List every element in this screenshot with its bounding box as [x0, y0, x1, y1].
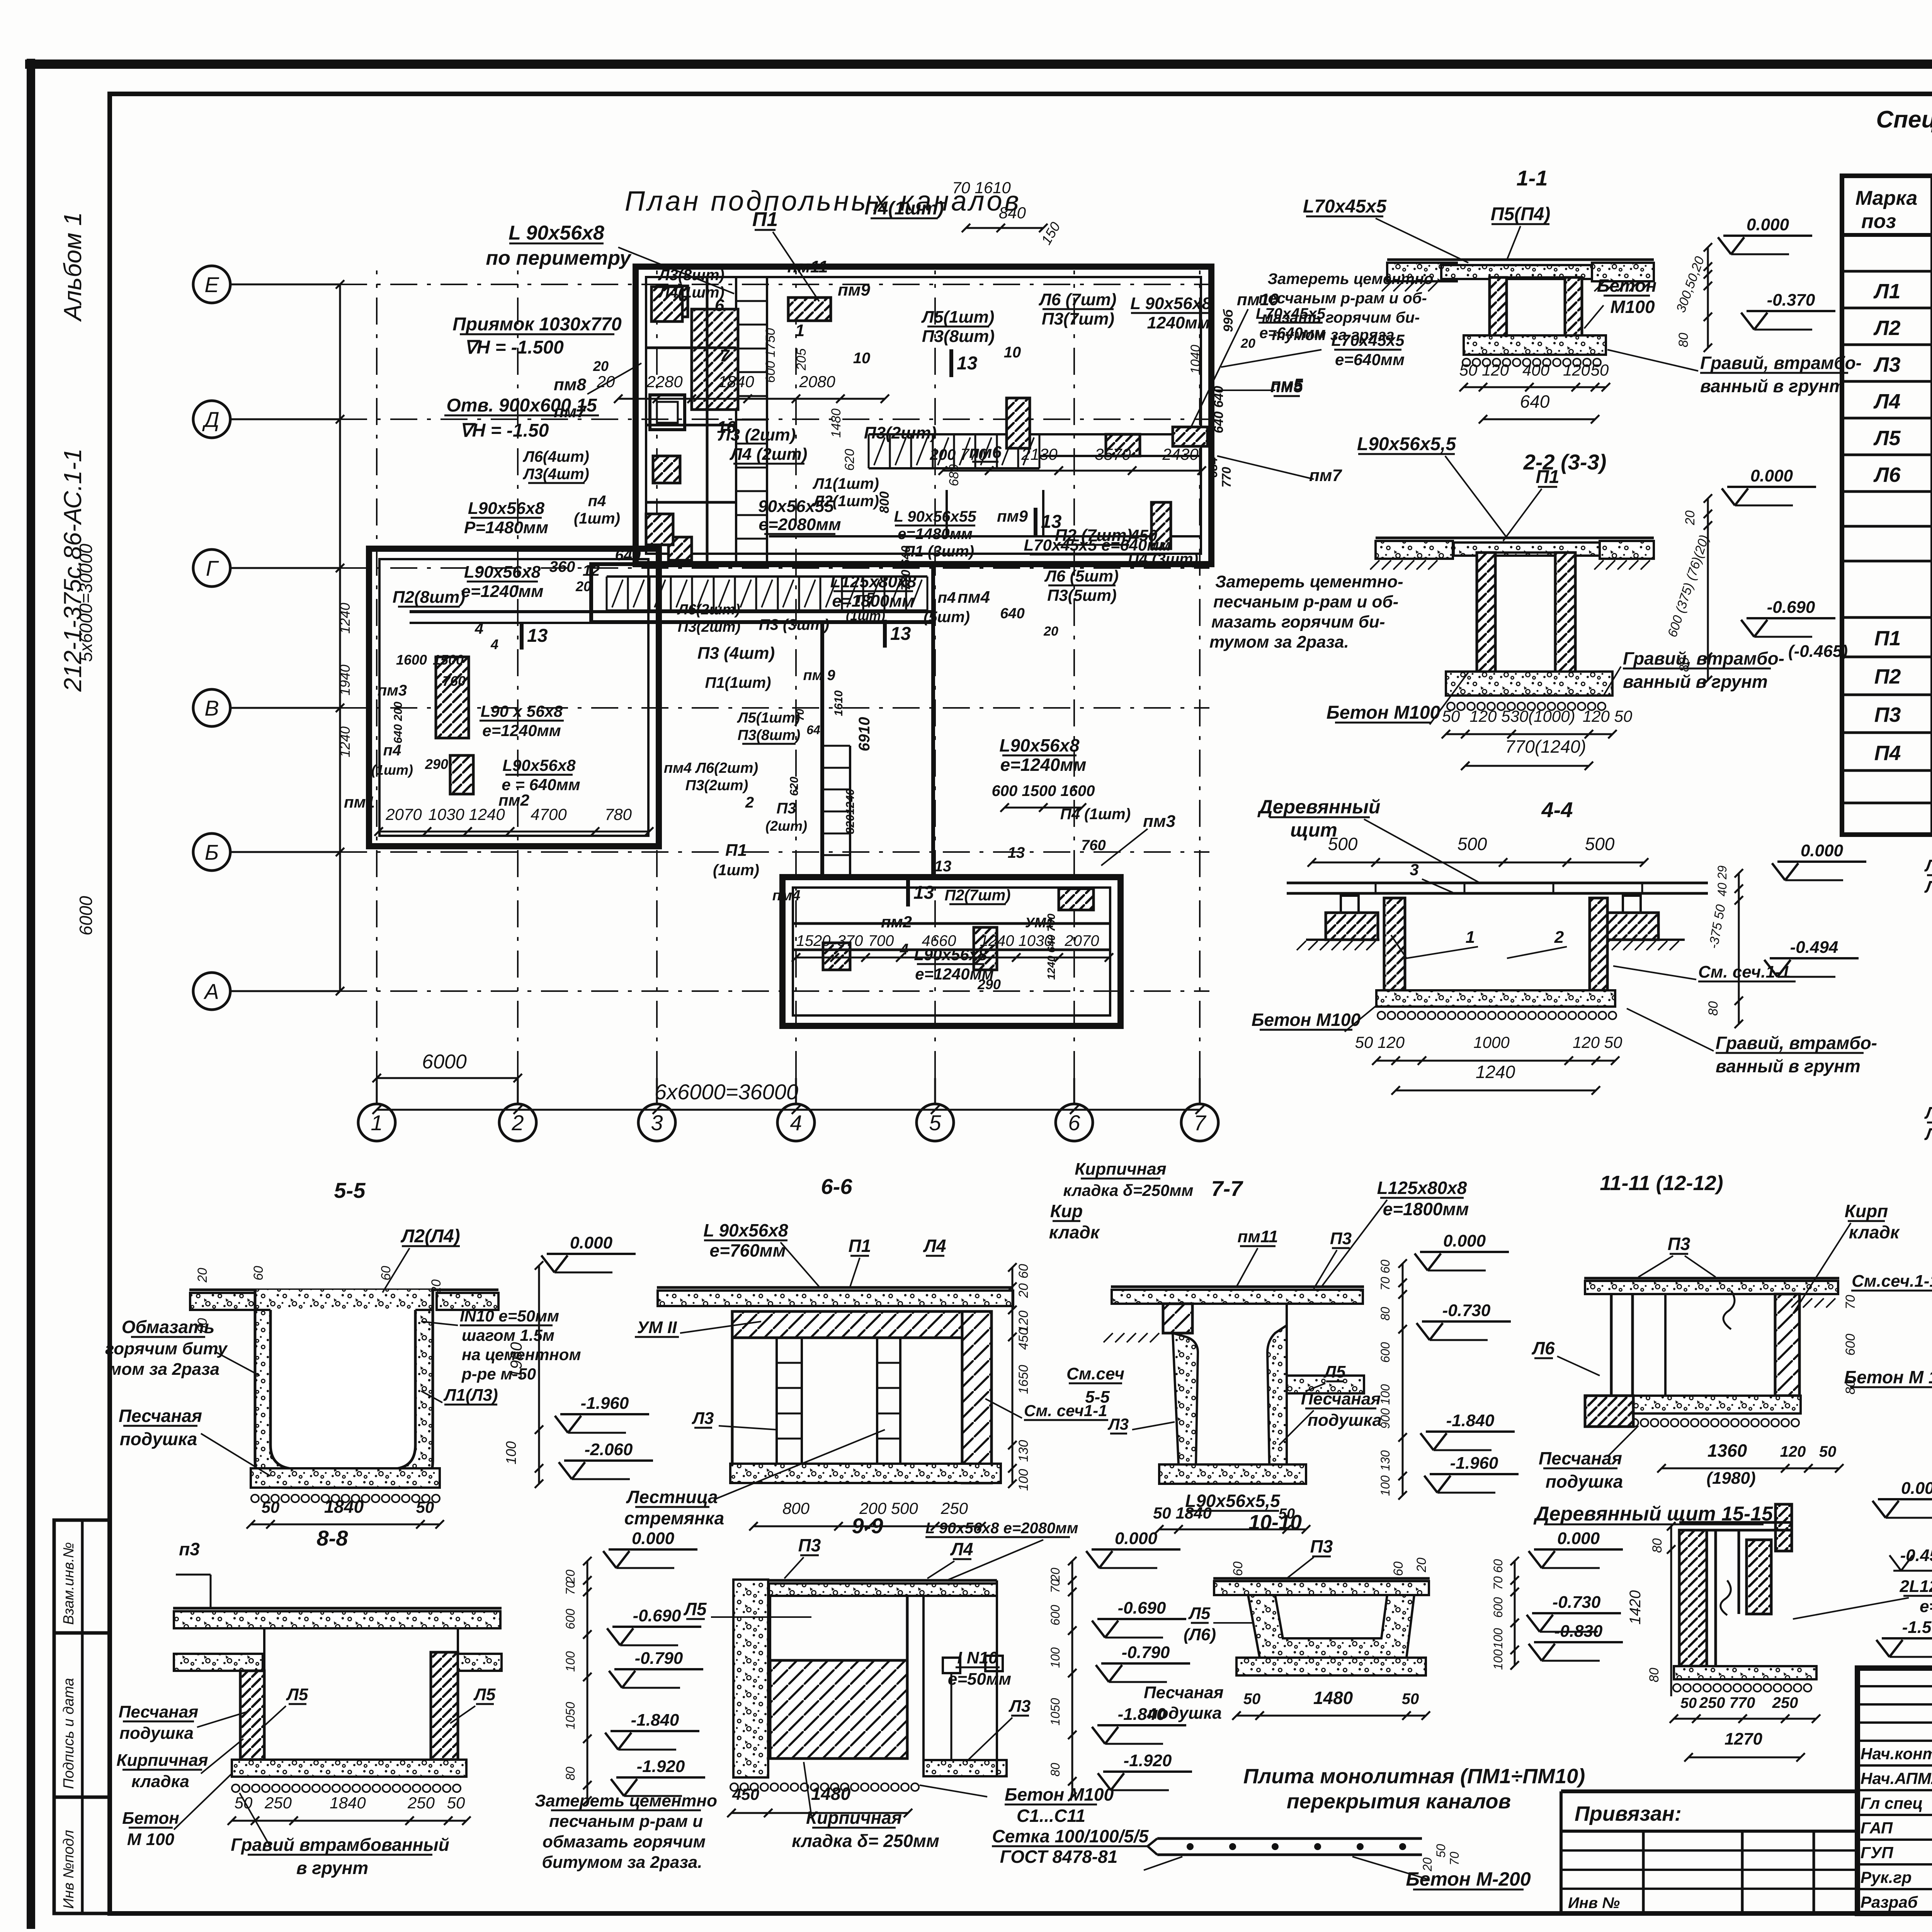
svg-text:640 200: 640 200	[392, 701, 405, 743]
svg-text:Л4: Л4	[1924, 878, 1932, 896]
svg-text:Привязан:: Привязан:	[1575, 1802, 1682, 1825]
svg-text:13: 13	[527, 626, 548, 646]
svg-text:6000: 6000	[422, 1051, 467, 1073]
svg-text:е=760мм: е=760мм	[709, 1240, 786, 1260]
svg-text:1: 1	[1466, 928, 1475, 947]
svg-text:См. сеч.1-1: См. сеч.1-1	[1698, 963, 1790, 981]
svg-text:(1шт): (1шт)	[371, 762, 413, 778]
svg-text:(2шт): (2шт)	[765, 818, 807, 834]
svg-text:70 60: 70 60	[1378, 1260, 1392, 1291]
section 11-11 drawing	[1584, 1277, 1839, 1280]
svg-text:600: 600	[1491, 1597, 1505, 1618]
svg-text:-1.920: -1.920	[637, 1757, 685, 1776]
svg-text:800: 800	[877, 492, 892, 514]
svg-text:L 90х56х55: L 90х56х55	[894, 508, 977, 525]
svg-text:П3(2шт): П3(2шт)	[864, 423, 937, 442]
svg-text:подушка: подушка	[120, 1429, 197, 1449]
svg-text:тумом за 2раза.: тумом за 2раза.	[1209, 633, 1349, 651]
section 4-4 channel	[1384, 898, 1405, 990]
svg-text:640: 640	[1520, 391, 1550, 412]
svg-text:6-6: 6-6	[821, 1174, 853, 1199]
svg-text:2070: 2070	[1065, 932, 1099, 949]
svg-text:Нач.контр: Нач.контр	[1861, 1745, 1932, 1763]
specification table grid	[1842, 176, 1932, 835]
svg-text:Бетон: Бетон	[122, 1809, 179, 1828]
svg-text:1: 1	[795, 321, 804, 340]
svg-text:Л4: Л4	[1873, 390, 1900, 413]
svg-text:-0.370: -0.370	[1767, 291, 1815, 310]
svg-text:1480: 1480	[811, 1784, 851, 1804]
svg-text:битумом за 2раза.: битумом за 2раза.	[542, 1853, 702, 1872]
svg-text:100: 100	[563, 1651, 577, 1672]
monolithic plate hatched patches	[692, 309, 738, 410]
svg-text:50: 50	[1355, 1033, 1373, 1051]
svg-text:П4(1шт): П4(1шт)	[864, 198, 944, 219]
svg-text:-0.494: -0.494	[1790, 938, 1838, 957]
svg-text:пм8: пм8	[554, 375, 586, 394]
svg-text:П3: П3	[1668, 1234, 1690, 1254]
svg-text:Песчаная: Песчаная	[1301, 1389, 1381, 1408]
svg-text:Кирпичная: Кирпичная	[806, 1808, 902, 1828]
svg-text:80: 80	[1647, 1668, 1662, 1682]
svg-text:0.000: 0.000	[1443, 1231, 1486, 1250]
svg-text:Песчаная: Песчаная	[119, 1702, 199, 1721]
svg-text:кладк: кладк	[1849, 1222, 1900, 1242]
svg-text:пм4 Л6(2шт): пм4 Л6(2шт)	[664, 760, 758, 776]
svg-text:(1980): (1980)	[1706, 1469, 1755, 1488]
svg-text:П3: П3	[776, 800, 796, 817]
svg-text:Л3 (2шт): Л3 (2шт)	[718, 425, 796, 444]
svg-text:-0.690: -0.690	[1118, 1599, 1166, 1617]
svg-text:П1 (3шт): П1 (3шт)	[904, 543, 974, 560]
svg-text:е=1480мм: е=1480мм	[898, 526, 973, 543]
svg-text:пм 9: пм 9	[803, 667, 835, 684]
svg-text:П3(2шт): П3(2шт)	[678, 619, 740, 635]
svg-text:80: 80	[1048, 1763, 1062, 1777]
svg-text:0.000: 0.000	[1557, 1529, 1600, 1548]
svg-text:Бетон М100: Бетон М100	[1252, 1010, 1361, 1030]
svg-text:Затереть цементно: Затереть цементно	[1267, 270, 1433, 287]
svg-text:250 770: 250 770	[1699, 1694, 1755, 1711]
section 7-7 levels	[1420, 1251, 1509, 1253]
svg-text:64: 64	[806, 723, 820, 737]
svg-text:кладка δ= 250мм: кладка δ= 250мм	[792, 1831, 939, 1851]
svg-text:-0.790: -0.790	[1122, 1643, 1170, 1662]
svg-text:1240: 1240	[337, 603, 353, 634]
svg-text:80: 80	[1706, 1001, 1721, 1016]
svg-text:80: 80	[1650, 1538, 1665, 1553]
svg-text:120: 120	[1378, 1033, 1405, 1051]
svg-text:щит: щит	[1290, 819, 1337, 841]
svg-text:е=1240мм: е=1240мм	[1000, 755, 1087, 775]
svg-text:L70х45х5: L70х45х5	[1303, 196, 1387, 217]
svg-text:4: 4	[474, 620, 483, 637]
svg-text:770 640: 770 640	[899, 546, 913, 590]
svg-text:6910: 6910	[856, 717, 873, 752]
svg-text:L 90х56х8 е=2080мм: L 90х56х8 е=2080мм	[925, 1520, 1078, 1537]
svg-text:13: 13	[890, 624, 911, 644]
svg-text:пм9: пм9	[997, 507, 1028, 525]
svg-text:290: 290	[425, 756, 448, 772]
svg-text:640 640: 640 640	[1211, 386, 1226, 433]
svg-text:(Л6): (Л6)	[1184, 1625, 1216, 1644]
svg-text:Л3(4шт): Л3(4шт)	[522, 466, 589, 483]
svg-text:1500: 1500	[433, 652, 464, 668]
svg-text:80: 80	[563, 1767, 577, 1781]
svg-text:4700: 4700	[531, 805, 567, 823]
svg-text:М 100: М 100	[127, 1830, 175, 1849]
title block frame	[1857, 1668, 1932, 1913]
svg-text:П3: П3	[1310, 1536, 1333, 1556]
svg-text:11-11 (12-12): 11-11 (12-12)	[1600, 1172, 1723, 1195]
svg-text:70: 70	[1843, 1295, 1858, 1310]
svg-text:Б: Б	[205, 840, 219, 864]
svg-text:мом за 2раза: мом за 2раза	[109, 1360, 219, 1379]
svg-text:250: 250	[1772, 1694, 1798, 1711]
svg-text:50: 50	[1402, 1690, 1419, 1708]
building outline left-lower block	[369, 549, 659, 846]
svg-text:горячим биту: горячим биту	[105, 1339, 228, 1358]
svg-text:Л3: Л3	[692, 1409, 714, 1428]
svg-text:840: 840	[999, 204, 1026, 222]
svg-text:обмазать горячим: обмазать горячим	[543, 1832, 706, 1851]
svg-text:П1: П1	[725, 841, 747, 860]
bottom-left stamp boxes	[54, 1520, 110, 1913]
svg-text:П3(5шт): П3(5шт)	[1047, 586, 1117, 604]
svg-text:Песчаная: Песчаная	[1539, 1448, 1622, 1468]
svg-text:L70х45х5 е=640мм: L70х45х5 е=640мм	[1024, 536, 1171, 554]
svg-text:684: 684	[1206, 457, 1220, 478]
svg-text:9-9: 9-9	[852, 1514, 883, 1538]
svg-text:пм1: пм1	[344, 793, 375, 811]
svg-text:6: 6	[715, 296, 724, 315]
channel ladder upper	[869, 433, 1039, 435]
svg-text:Л3: Л3	[1009, 1697, 1031, 1716]
svg-text:Гравий, втрамбо-: Гравий, втрамбо-	[1716, 1033, 1877, 1053]
svg-text:-1.960: -1.960	[1450, 1454, 1498, 1473]
svg-text:П3: П3	[1330, 1229, 1352, 1248]
svg-text:е=2080мм: е=2080мм	[759, 515, 841, 534]
svg-text:600: 600	[1048, 1605, 1062, 1626]
svg-text:пм7: пм7	[1309, 466, 1342, 485]
svg-text:Гравий, втрамбо-: Гравий, втрамбо-	[1623, 648, 1784, 668]
svg-text:Песчаная: Песчаная	[1144, 1683, 1224, 1702]
svg-text:80: 80	[1378, 1307, 1392, 1321]
svg-text:10: 10	[853, 350, 871, 367]
svg-text:кладка: кладка	[131, 1772, 189, 1791]
svg-text:Л3(8шт): Л3(8шт)	[658, 267, 724, 284]
svg-text:Л4 (2шт): Л4 (2шт)	[730, 445, 808, 464]
svg-text:П1: П1	[849, 1236, 871, 1256]
svg-text:250: 250	[264, 1794, 292, 1812]
svg-text:Взам.инв.№: Взам.инв.№	[61, 1542, 77, 1625]
building corridor vertical	[822, 622, 933, 877]
svg-text:90х56х55: 90х56х55	[758, 497, 834, 516]
outer paper border	[27, 59, 35, 1929]
svg-text:99б: 99б	[1221, 309, 1236, 332]
svg-text:L90 х 56х8: L90 х 56х8	[481, 702, 563, 720]
svg-text:L90х56х5,5: L90х56х5,5	[1357, 434, 1457, 454]
svg-text:100: 100	[1378, 1475, 1392, 1496]
svg-text:20: 20	[195, 1268, 210, 1283]
svg-text:L90х56х8: L90х56х8	[914, 946, 987, 964]
svg-text:120 50: 120 50	[1583, 707, 1633, 725]
svg-text:Нач.АПМ2: Нач.АПМ2	[1861, 1769, 1932, 1787]
svg-text:Гравий втрамбованный: Гравий втрамбованный	[231, 1835, 449, 1855]
svg-text:2280: 2280	[646, 372, 683, 391]
svg-text:Гравий, втрамбо-: Гравий, втрамбо-	[1700, 353, 1862, 373]
svg-text:13: 13	[934, 858, 952, 875]
svg-text:-0.690: -0.690	[633, 1606, 681, 1625]
svg-text:20: 20	[593, 358, 609, 374]
svg-text:600: 600	[1843, 1334, 1858, 1356]
svg-text:по периметру: по периметру	[486, 247, 632, 269]
svg-text:1480: 1480	[1313, 1688, 1353, 1708]
svg-text:1840: 1840	[330, 1794, 366, 1812]
svg-text:7-7: 7-7	[1211, 1176, 1244, 1201]
svg-text:Инв №: Инв №	[1568, 1895, 1620, 1912]
svg-text:Л1: Л1	[1873, 280, 1900, 303]
svg-text:1840: 1840	[718, 372, 754, 391]
svg-text:П3(7шт): П3(7шт)	[1042, 310, 1114, 328]
svg-text:Л1(Л3): Л1(Л3)	[443, 1386, 498, 1405]
svg-text:60: 60	[1231, 1561, 1245, 1576]
svg-text:песчаным р-рам и об-: песчаным р-рам и об-	[1213, 592, 1398, 611]
svg-text:10: 10	[1004, 344, 1021, 361]
svg-text:13: 13	[1008, 844, 1025, 861]
svg-text:пм2: пм2	[498, 791, 529, 809]
svg-text:(5шт): (5шт)	[923, 609, 970, 626]
svg-text:(1шт): (1шт)	[574, 510, 620, 527]
svg-text:0.000: 0.000	[1901, 1479, 1932, 1498]
svg-text:ГАП: ГАП	[1861, 1819, 1893, 1837]
svg-text:360: 360	[549, 558, 575, 575]
svg-text:Л6(4шт): Л6(4шт)	[522, 448, 589, 465]
svg-text:(-0.465): (-0.465)	[1788, 642, 1848, 661]
svg-text:0.000: 0.000	[1750, 466, 1793, 485]
svg-text:мазать горячим би-: мазать горячим би-	[1211, 612, 1385, 631]
svg-text:50: 50	[1459, 361, 1478, 379]
svg-text:450: 450	[1016, 1328, 1031, 1350]
svg-text:П3(2шт): П3(2шт)	[685, 777, 748, 794]
channel ladder middle horizontal	[607, 575, 927, 578]
svg-text:Кирпичная: Кирпичная	[1075, 1160, 1166, 1179]
svg-text:600 1500 1600: 600 1500 1600	[992, 782, 1095, 799]
svg-text:пм9: пм9	[838, 281, 870, 299]
svg-text:20: 20	[1683, 510, 1697, 526]
svg-text:песчаным р-рам и об-: песчаным р-рам и об-	[1259, 290, 1427, 307]
svg-text:Бетон М100: Бетон М100	[1005, 1784, 1114, 1804]
svg-text:пм7: пм7	[554, 402, 587, 421]
svg-text:50: 50	[447, 1794, 465, 1812]
svg-text:500: 500	[1458, 834, 1487, 854]
svg-text:ванный в грунт: ванный в грунт	[1700, 376, 1845, 396]
svg-text:Сетка 100/100/5/5: Сетка 100/100/5/5	[992, 1826, 1149, 1846]
priyamok square detail	[650, 395, 685, 430]
svg-text:перекрытия каналов: перекрытия каналов	[1287, 1790, 1511, 1813]
svg-text:130: 130	[1016, 1440, 1031, 1462]
building corridor horizontal	[591, 564, 933, 622]
R3 internal channel band	[793, 922, 1109, 925]
svg-text:0.000: 0.000	[1747, 215, 1789, 234]
svg-text:50: 50	[1591, 361, 1609, 379]
svg-text:ванный в грунт: ванный в грунт	[1716, 1056, 1861, 1076]
svg-text:Затереть цементно-: Затереть цементно-	[1215, 572, 1403, 591]
svg-text:120: 120	[1563, 361, 1590, 379]
svg-text:п4: п4	[938, 589, 956, 606]
section 9-9 levels (right col)	[1092, 1548, 1180, 1551]
svg-text:песчаным р-рам и: песчаным р-рам и	[549, 1812, 703, 1831]
svg-text:770(1240): 770(1240)	[1505, 736, 1586, 757]
svg-text:L70х45х5: L70х45х5	[1256, 305, 1326, 322]
svg-text:Обмазать: Обмазать	[122, 1317, 215, 1337]
svg-text:4: 4	[900, 941, 908, 958]
svg-text:1: 1	[371, 1111, 383, 1135]
svg-text:1240: 1240	[1476, 1062, 1515, 1082]
svg-text:Приямок 1030х770: Приямок 1030х770	[452, 314, 622, 335]
svg-text:8201240: 8201240	[844, 789, 857, 834]
svg-text:Подпись и дата: Подпись и дата	[61, 1678, 77, 1789]
svg-text:50: 50	[1680, 1695, 1697, 1711]
svg-text:50: 50	[1434, 1844, 1448, 1858]
svg-text:п4: п4	[383, 742, 401, 759]
svg-text:А: А	[203, 979, 219, 1003]
svg-text:2: 2	[745, 794, 754, 811]
svg-text:Е: Е	[204, 272, 219, 297]
svg-text:П3 (4шт): П3 (4шт)	[697, 644, 775, 663]
svg-text:70: 70	[563, 1581, 577, 1595]
section 10-10 levels	[1534, 1548, 1623, 1551]
svg-text:Лестница: Лестница	[626, 1487, 718, 1507]
svg-text:Деревянный: Деревянный	[1257, 796, 1381, 818]
svg-text:Гл спец: Гл спец	[1861, 1794, 1923, 1812]
svg-text:Р=1480мм: Р=1480мм	[464, 518, 548, 537]
svg-text:1-1: 1-1	[1517, 166, 1548, 190]
svg-text:L 90х56х8: L 90х56х8	[509, 222, 604, 244]
svg-text:L90х56х8: L90х56х8	[468, 499, 545, 518]
svg-text:П2: П2	[1874, 665, 1901, 688]
svg-text:Бетон: Бетон	[1597, 276, 1656, 296]
svg-text:60: 60	[1391, 1561, 1406, 1576]
svg-text:е=50мм: е=50мм	[948, 1670, 1011, 1689]
svg-text:п3: п3	[179, 1539, 200, 1559]
svg-text:е=1800мм: е=1800мм	[1383, 1199, 1469, 1219]
svg-text:800: 800	[782, 1499, 810, 1517]
section 9-9 drawing	[733, 1580, 768, 1777]
svg-text:L 90х56х8: L 90х56х8	[1130, 294, 1211, 313]
svg-text:Кирпичная: Кирпичная	[116, 1751, 208, 1770]
svg-text:4: 4	[490, 636, 498, 652]
svg-text:2: 2	[511, 1111, 524, 1135]
svg-text:L90х56х5,5: L90х56х5,5	[1185, 1491, 1281, 1511]
svg-text:-1.920: -1.920	[1124, 1751, 1172, 1770]
plan axis grid horizontal	[193, 266, 230, 303]
svg-text:205: 205	[794, 349, 809, 371]
svg-text:13: 13	[913, 883, 934, 903]
svg-text:1650: 1650	[1016, 1365, 1031, 1394]
plan bottom dimension lines	[377, 1077, 518, 1079]
svg-text:М100: М100	[1610, 297, 1655, 317]
svg-text:70: 70	[1048, 1579, 1062, 1593]
svg-text:Л3: Л3	[1107, 1415, 1129, 1433]
svg-text:пм11: пм11	[787, 257, 828, 276]
svg-text:120 530(1000): 120 530(1000)	[1469, 707, 1575, 725]
svg-text:680: 680	[947, 464, 961, 486]
svg-text:Рук.гр: Рук.гр	[1861, 1868, 1912, 1886]
svg-text:7: 7	[720, 346, 730, 365]
svg-text:поз: поз	[1861, 210, 1896, 233]
svg-text:∇Н = -1.50: ∇Н = -1.50	[460, 420, 549, 441]
svg-text:620: 620	[842, 449, 857, 471]
svg-text:Л5(1шт): Л5(1шт)	[921, 308, 995, 327]
svg-text:760: 760	[1081, 837, 1105, 854]
svg-text:ГОСТ 8478-81: ГОСТ 8478-81	[1000, 1847, 1118, 1867]
svg-text:С1...С11: С1...С11	[1017, 1806, 1085, 1826]
svg-text:е=1240мм: е=1240мм	[461, 582, 543, 601]
svg-text:780: 780	[605, 805, 632, 823]
plan axis grid vertical	[358, 1104, 395, 1141]
svg-text:Л4: Л4	[923, 1236, 946, 1256]
svg-text:Л6(2шт): Л6(2шт)	[677, 602, 740, 618]
svg-text:шагом 1.5м: шагом 1.5м	[462, 1326, 554, 1344]
svg-text:-1.500: -1.500	[1902, 1618, 1932, 1637]
svg-text:-0.730: -0.730	[1553, 1593, 1601, 1612]
section 5-5/6-6 levels	[547, 1253, 636, 1255]
svg-text:Бетон М100: Бетон М100	[1327, 702, 1440, 723]
svg-text:Л1: Л1	[1924, 1104, 1932, 1122]
svg-text:е=1.6м: е=1.6м	[1920, 1597, 1932, 1616]
svg-text:13: 13	[1041, 512, 1062, 532]
svg-text:900 100: 900 100	[1378, 1384, 1392, 1429]
svg-text:стремянка: стремянка	[624, 1508, 724, 1528]
svg-text:-0.730: -0.730	[1442, 1301, 1491, 1320]
svg-text:2L125х80х8: 2L125х80х8	[1899, 1577, 1932, 1596]
svg-text:4: 4	[790, 1111, 802, 1135]
svg-text:П1: П1	[1874, 627, 1901, 650]
section 4-4 levels	[1777, 861, 1866, 863]
svg-text:8-8: 8-8	[317, 1526, 349, 1550]
svg-text:Л5: Л5	[1323, 1362, 1346, 1381]
svg-text:Л5: Л5	[286, 1685, 308, 1704]
svg-text:1520: 1520	[796, 932, 831, 949]
svg-text:Л6: Л6	[1873, 463, 1901, 486]
svg-text:0.000: 0.000	[1115, 1529, 1158, 1548]
privyazan block	[1561, 1789, 1857, 1793]
svg-text:100: 100	[1048, 1647, 1062, 1668]
section 4-4 deck	[1287, 882, 1708, 884]
svg-text:120: 120	[1573, 1033, 1600, 1051]
svg-text:4-4: 4-4	[1541, 798, 1573, 822]
svg-text:Разраб: Разраб	[1861, 1893, 1918, 1911]
svg-text:Спецификация сборных железобет: Спецификация сборных железобетонных лотк…	[1876, 106, 1932, 133]
svg-text:П5(П4): П5(П4)	[1491, 204, 1550, 224]
svg-text:250: 250	[940, 1499, 968, 1517]
svg-text:60: 60	[1016, 1264, 1031, 1279]
svg-text:Затереть цементно: Затереть цементно	[535, 1791, 717, 1810]
svg-text:370: 370	[837, 932, 863, 949]
svg-text:L90х56х8: L90х56х8	[464, 563, 541, 582]
svg-text:50: 50	[416, 1498, 434, 1516]
section 2-2 drawing	[1376, 537, 1654, 539]
svg-text:в грунт: в грунт	[296, 1858, 368, 1878]
svg-text:290: 290	[977, 976, 1001, 992]
svg-text:-1.840: -1.840	[631, 1711, 679, 1730]
svg-text:2070: 2070	[385, 805, 422, 823]
svg-text:Песчаная: Песчаная	[119, 1406, 202, 1426]
svg-text:Альбом 1: Альбом 1	[59, 212, 87, 322]
svg-text:3570: 3570	[1095, 445, 1131, 463]
svg-text:Кирп: Кирп	[1845, 1201, 1888, 1221]
